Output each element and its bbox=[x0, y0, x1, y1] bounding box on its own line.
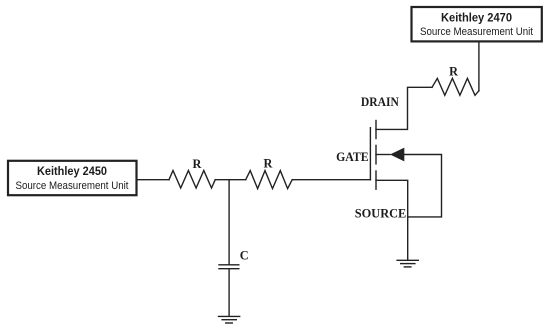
body tap wire to arrow bbox=[376, 154, 390, 156]
svg-text:R: R bbox=[449, 64, 458, 78]
wire R1 to R2 through node A bbox=[215, 179, 246, 181]
svg-text:Source Measurement Unit: Source Measurement Unit bbox=[16, 180, 129, 192]
resistor R2 bbox=[246, 171, 293, 189]
svg-text:SOURCE: SOURCE bbox=[355, 207, 407, 221]
wire R3 up to Keithley 2470 box bbox=[478, 42, 480, 91]
channel segment bottom (source) bbox=[375, 171, 377, 189]
svg-text:GATE: GATE bbox=[336, 150, 369, 164]
wire from Keithley 2450 box to resistor R1 bbox=[137, 179, 169, 181]
resistor R1 bbox=[169, 171, 215, 189]
channel segment middle (body) bbox=[375, 145, 377, 164]
svg-text:C: C bbox=[240, 249, 249, 263]
transistor Q1 N-channel MOSFET bbox=[370, 121, 404, 190]
ground below source bbox=[397, 260, 418, 267]
source wire down from MOSFET bbox=[376, 180, 408, 260]
svg-text:Keithley 2450: Keithley 2450 bbox=[37, 164, 107, 178]
channel segment top (drain) bbox=[375, 121, 377, 139]
svg-text:Source Measurement Unit: Source Measurement Unit bbox=[420, 26, 533, 38]
resistor R3 bbox=[432, 78, 479, 95]
box Keithley 2450 Source Measurement Unit bbox=[8, 161, 137, 195]
wire R2 to MOSFET gate bbox=[292, 179, 370, 181]
body wire from arrow to source node bbox=[404, 155, 441, 217]
svg-text:Keithley 2470: Keithley 2470 bbox=[441, 11, 512, 25]
node A junction wire down to capacitor C bbox=[228, 180, 230, 264]
ground below capacitor bbox=[219, 316, 240, 323]
svg-text:R: R bbox=[193, 157, 202, 171]
wire capacitor to ground bbox=[228, 270, 230, 317]
box Keithley 2470 Source Measurement Unit bbox=[412, 7, 542, 41]
body arrow bbox=[390, 148, 404, 162]
svg-text:DRAIN: DRAIN bbox=[361, 95, 399, 109]
gate bar bbox=[369, 128, 371, 180]
capacitor C bbox=[219, 265, 239, 269]
svg-text:R: R bbox=[264, 157, 273, 171]
drain wire up from MOSFET bbox=[376, 87, 432, 129]
